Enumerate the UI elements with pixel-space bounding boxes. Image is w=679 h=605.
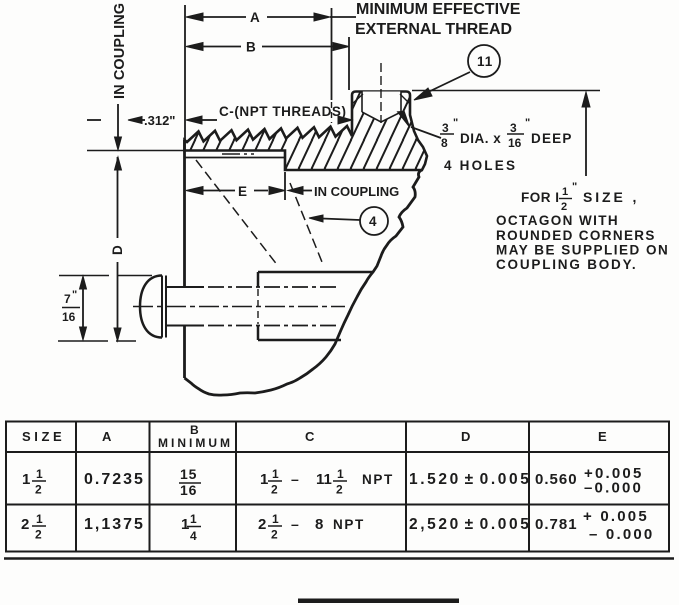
reference line from boss top to right bbox=[412, 90, 600, 92]
svg-text:B: B bbox=[190, 423, 199, 437]
boss (nut pocket) rectangle bbox=[258, 272, 373, 340]
body left edge bbox=[183, 140, 186, 378]
table row 2 bbox=[21, 508, 654, 543]
bolt centerline bbox=[133, 306, 345, 308]
pitch line dash on face bbox=[222, 153, 254, 155]
svg-text:4: 4 bbox=[190, 529, 197, 543]
svg-text:2: 2 bbox=[271, 528, 278, 542]
svg-text:1: 1 bbox=[22, 471, 30, 488]
svg-text:D: D bbox=[461, 429, 470, 444]
dimension C-(NPT THREADS) bbox=[186, 104, 352, 124]
svg-text:1: 1 bbox=[36, 512, 43, 526]
svg-text:8: 8 bbox=[315, 516, 323, 533]
svg-text:NPT: NPT bbox=[362, 472, 394, 487]
svg-text:DEEP: DEEP bbox=[531, 131, 573, 146]
table row 1 bbox=[22, 465, 644, 498]
note FOR 1-1/2 SIZE octagon bbox=[496, 181, 669, 272]
boss flat face (white) bbox=[352, 92, 410, 127]
row1 fraction bars bbox=[32, 481, 347, 483]
svg-text:": " bbox=[453, 117, 458, 129]
step at thread end of face bbox=[284, 158, 286, 171]
jagged break outline (right and bottom) bbox=[185, 170, 423, 395]
phantom taper line B (dashed) bbox=[290, 183, 322, 262]
svg-text:2: 2 bbox=[271, 483, 278, 497]
right vertical dimension line bbox=[582, 92, 590, 176]
svg-text:1: 1 bbox=[272, 467, 279, 481]
svg-text:1: 1 bbox=[260, 471, 268, 488]
note 3/8 DIA x 3/16 DEEP 4 HOLES bbox=[411, 117, 573, 173]
row2 fraction bars bbox=[32, 525, 282, 528]
svg-text:7: 7 bbox=[64, 292, 71, 306]
svg-text:–: – bbox=[291, 516, 299, 532]
svg-text:1: 1 bbox=[272, 512, 279, 526]
svg-text:2: 2 bbox=[336, 483, 343, 497]
svg-text:E: E bbox=[238, 184, 248, 199]
svg-text:3: 3 bbox=[442, 121, 449, 135]
dimension B bbox=[186, 40, 349, 55]
balloon 11 with leader bbox=[414, 45, 500, 100]
svg-text:1: 1 bbox=[562, 186, 568, 198]
svg-text:+ 0.005: + 0.005 bbox=[583, 508, 649, 525]
svg-text:IN COUPLING: IN COUPLING bbox=[314, 184, 399, 199]
svg-text:16: 16 bbox=[180, 482, 197, 498]
svg-text:OCTAGON WITH: OCTAGON WITH bbox=[496, 213, 619, 228]
svg-text:": " bbox=[572, 181, 577, 193]
svg-text:D: D bbox=[110, 244, 125, 255]
svg-text:C-(NPT THREADS): C-(NPT THREADS) bbox=[219, 104, 347, 119]
svg-text:": " bbox=[72, 289, 77, 301]
bottom black bar bbox=[298, 599, 459, 604]
dimension E / IN COUPLING bbox=[186, 172, 399, 200]
svg-text:0.781: 0.781 bbox=[535, 516, 578, 533]
svg-text:–: – bbox=[291, 471, 299, 487]
svg-text:A: A bbox=[102, 429, 112, 444]
dimension A bbox=[186, 10, 356, 25]
svg-text:FOR I: FOR I bbox=[521, 190, 560, 205]
svg-text:2: 2 bbox=[35, 528, 42, 542]
svg-text:1.520 ± 0.005: 1.520 ± 0.005 bbox=[409, 471, 531, 488]
svg-text:NPT: NPT bbox=[333, 517, 365, 532]
svg-text:2: 2 bbox=[35, 483, 42, 497]
table header text bbox=[22, 423, 607, 450]
svg-text:2: 2 bbox=[561, 201, 567, 213]
svg-text:16: 16 bbox=[508, 136, 522, 150]
svg-text:E: E bbox=[598, 429, 607, 444]
coupling face lines bbox=[87, 151, 285, 158]
top reference dashes for 7/16 bbox=[59, 275, 152, 277]
table bottom rule bbox=[4, 557, 674, 559]
svg-text:EXTERNAL THREAD: EXTERNAL THREAD bbox=[355, 21, 512, 38]
svg-text:16: 16 bbox=[62, 310, 76, 324]
svg-text:A: A bbox=[250, 10, 261, 25]
svg-text:0.7235: 0.7235 bbox=[84, 471, 145, 488]
svg-text:– 0.000: – 0.000 bbox=[589, 526, 654, 543]
dimension .312" bbox=[87, 104, 175, 170]
svg-text:1: 1 bbox=[181, 516, 189, 533]
svg-text:C: C bbox=[305, 429, 315, 444]
svg-text:2,520 ± 0.005: 2,520 ± 0.005 bbox=[409, 516, 531, 533]
svg-text:4: 4 bbox=[369, 214, 378, 229]
title MINIMUM EFFECTIVE EXTERNAL THREAD bbox=[355, 1, 521, 38]
extension line for B end (x=349) bbox=[348, 37, 350, 90]
vertical label IN COUPLING (top left) bbox=[112, 3, 128, 99]
svg-text:1: 1 bbox=[190, 512, 197, 526]
svg-text:11: 11 bbox=[477, 54, 493, 69]
svg-text:1: 1 bbox=[337, 467, 344, 481]
bolt shank lines bbox=[166, 287, 338, 326]
bottom reference dashes bbox=[58, 340, 136, 342]
svg-text:15: 15 bbox=[180, 466, 197, 482]
svg-text:11: 11 bbox=[316, 471, 332, 488]
svg-text:DIA. x: DIA. x bbox=[460, 131, 501, 146]
extension line for A end (x=331.5) bbox=[331, 8, 333, 123]
dimension D bbox=[110, 157, 125, 341]
svg-text:MINIMUM EFFECTIVE: MINIMUM EFFECTIVE bbox=[356, 1, 521, 18]
svg-text:2: 2 bbox=[258, 516, 266, 533]
svg-text:MINIMUM: MINIMUM bbox=[158, 436, 233, 450]
bolt head dome bbox=[140, 276, 166, 338]
phantom taper line A (dashed) bbox=[196, 160, 278, 266]
svg-text:IN COUPLING: IN COUPLING bbox=[112, 3, 128, 99]
svg-text:3: 3 bbox=[510, 121, 517, 135]
svg-text:B: B bbox=[246, 40, 257, 55]
svg-text:SIZE: SIZE bbox=[22, 429, 65, 444]
svg-text:4 HOLES: 4 HOLES bbox=[444, 158, 517, 173]
hatched section region bbox=[185, 92, 428, 171]
table bbox=[6, 422, 669, 552]
svg-text:1: 1 bbox=[36, 467, 43, 481]
svg-text:2: 2 bbox=[21, 516, 29, 533]
svg-text:–0.000: –0.000 bbox=[584, 480, 643, 497]
svg-text:8: 8 bbox=[441, 136, 448, 150]
svg-text:ROUNDED CORNERS: ROUNDED CORNERS bbox=[496, 228, 656, 243]
svg-text:.312": .312" bbox=[144, 113, 175, 128]
svg-text:MAY BE SUPPLIED ON: MAY BE SUPPLIED ON bbox=[496, 243, 669, 258]
svg-text:COUPLING BODY.: COUPLING BODY. bbox=[496, 257, 637, 272]
svg-text:SIZE ,: SIZE , bbox=[583, 189, 639, 205]
svg-text:0.560: 0.560 bbox=[535, 471, 578, 488]
svg-text:1,1375: 1,1375 bbox=[84, 516, 145, 533]
boss centerline (dashed) bbox=[380, 63, 382, 123]
balloon 4 with leader bbox=[309, 207, 388, 235]
dimension 7/16 bbox=[62, 276, 87, 340]
extension line left (x=185) bbox=[184, 5, 186, 140]
fraction bar for 1/2 in note bbox=[559, 198, 572, 200]
svg-text:": " bbox=[525, 117, 530, 129]
